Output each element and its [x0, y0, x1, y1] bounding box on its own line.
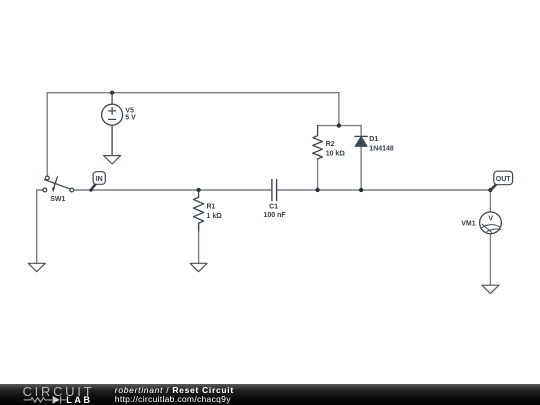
diode D1: [355, 136, 368, 146]
wire left vertical to switch: [46, 93, 48, 176]
svg-text:R2: R2: [326, 141, 335, 148]
switch SW1: [43, 176, 74, 193]
svg-text:SW1: SW1: [50, 196, 65, 203]
capacitor C1: [272, 180, 277, 201]
wire D1 branch: [360, 126, 362, 190]
wire top rail: [47, 92, 339, 94]
wire top-right vertical to R2/D1: [338, 93, 340, 126]
ground below SW1 lower throw: [28, 263, 45, 271]
junction R1 rail: [197, 188, 201, 192]
svg-text:R1: R1: [207, 203, 216, 210]
ground below V5: [104, 156, 121, 164]
resistor R1: [194, 190, 204, 231]
svg-text:100 nF: 100 nF: [264, 212, 287, 219]
wire switch lower throw to ground: [37, 190, 43, 263]
CircuitLab logo: [0, 384, 110, 405]
svg-text:D1: D1: [369, 136, 378, 143]
junction R2/D1 top: [337, 124, 341, 128]
wire main rail right (C1 to OUT): [277, 189, 491, 191]
resistor R2: [313, 126, 323, 159]
wire VM1 to ground: [489, 234, 491, 286]
ground below R1: [190, 263, 207, 271]
svg-text:OUT: OUT: [496, 176, 512, 183]
junction D1 rail: [359, 188, 363, 192]
net flag OUT: [491, 171, 513, 190]
wire R2/D1 top bar: [318, 125, 362, 127]
svg-text:V: V: [488, 215, 493, 222]
junction R2 rail: [316, 188, 320, 192]
ground below VM1: [482, 285, 499, 293]
junction OUT node: [488, 188, 492, 192]
voltmeter VM1: [480, 212, 502, 234]
svg-text:IN: IN: [96, 176, 103, 183]
svg-text:5 V: 5 V: [125, 115, 136, 122]
footer title text: [115, 386, 234, 395]
wire OUT to VM1: [489, 190, 491, 212]
svg-text:V5: V5: [125, 108, 134, 115]
junction V5 top: [110, 91, 114, 95]
svg-text:10 kΩ: 10 kΩ: [326, 150, 346, 157]
svg-text:VM1: VM1: [461, 220, 476, 227]
svg-text:1N4148: 1N4148: [369, 146, 394, 153]
voltage source V5: [102, 93, 123, 156]
wire main rail left (switch to C1): [74, 189, 272, 191]
footer url text: [115, 395, 231, 404]
net flag IN: [89, 172, 105, 192]
wire R1 to ground: [198, 223, 200, 263]
svg-text:1 kΩ: 1 kΩ: [207, 213, 223, 220]
wire R2 bottom lead: [317, 159, 319, 190]
footer bar: [0, 384, 540, 405]
svg-text:LAB: LAB: [66, 395, 92, 405]
svg-text:C1: C1: [269, 203, 278, 210]
